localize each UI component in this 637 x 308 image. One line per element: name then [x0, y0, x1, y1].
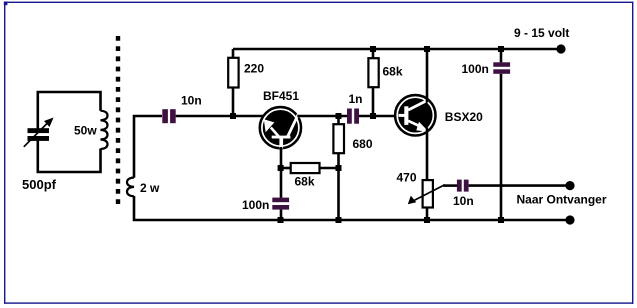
wire tank loop bottom	[38, 141, 101, 172]
wire 100n decoupling vertical bottom	[500, 74, 503, 220]
node junction BSX20 collector/rail	[424, 46, 430, 52]
capacitor 1n	[347, 109, 352, 124]
node junction 680 top	[336, 113, 342, 119]
terminal bottom rail	[565, 215, 574, 224]
potentiometer 470	[423, 180, 433, 207]
svg-text:470: 470	[397, 171, 417, 185]
node junction 680/68k	[336, 165, 342, 171]
resistor 220	[228, 58, 238, 88]
node junction pot/rail	[424, 217, 430, 223]
capacitor 10n input	[162, 109, 168, 123]
wire bottom rail right	[281, 219, 570, 222]
svg-text:1n: 1n	[349, 92, 363, 106]
node junction 68k/rail	[370, 46, 376, 52]
wire BF451 collector to 1n	[297, 115, 347, 118]
border frame	[4, 2, 5, 304]
wire 2w top	[134, 116, 162, 178]
svg-text:BSX20: BSX20	[445, 110, 483, 124]
node junction 68k top resistor	[370, 113, 376, 119]
svg-text:50w: 50w	[74, 124, 97, 138]
node junction emitter/68k	[278, 165, 284, 171]
wire 2w bottom	[134, 196, 280, 220]
wire BF451 emitter down	[280, 147, 283, 198]
node junction 220/base	[230, 113, 236, 119]
wire wiper to 10n out	[443, 184, 458, 187]
transistor BF451	[260, 107, 301, 148]
node junction rail/emitter	[278, 217, 284, 223]
terminal 9-15V	[556, 44, 565, 53]
wire 100n decoupling vertical top	[500, 49, 503, 62]
wire 68k right to 680 line	[320, 167, 339, 170]
coil 2w	[127, 178, 134, 197]
svg-text:500pf: 500pf	[22, 177, 57, 192]
terminal naar ontvanger	[565, 181, 574, 190]
svg-text:2 w: 2 w	[140, 181, 160, 195]
svg-text:Naar Ontvanger: Naar Ontvanger	[517, 192, 607, 206]
svg-text:220: 220	[244, 62, 264, 76]
wire 100n to rail	[280, 210, 283, 220]
wire BSX20 emitter	[426, 128, 429, 181]
wire 10n out to terminal	[469, 184, 570, 187]
capacitor 10n output	[457, 180, 462, 192]
potentiometer wiper arrow	[412, 185, 445, 202]
wire 10n to base	[176, 115, 264, 118]
svg-text:680: 680	[353, 137, 373, 151]
wire 68k left stub	[281, 167, 291, 170]
transformer core	[116, 36, 120, 208]
svg-text:100n: 100n	[462, 62, 489, 76]
wire tank loop top	[38, 92, 101, 129]
capacitor 100n decoupling	[493, 62, 510, 67]
variable capacitor 500pf plates	[28, 128, 50, 133]
node junction 100n/bottom rail	[498, 217, 504, 223]
svg-text:10n: 10n	[453, 194, 474, 208]
wire top rail	[233, 48, 561, 51]
wire 68k top vertical	[372, 49, 375, 116]
capacitor 100n emitter	[272, 198, 289, 203]
svg-text:68k: 68k	[295, 175, 315, 189]
node junction 100n/rail	[498, 46, 504, 52]
wire 220 resistor vertical	[232, 49, 235, 116]
wire BSX20 collector	[426, 49, 429, 103]
svg-text:68k: 68k	[383, 65, 403, 79]
svg-text:10n: 10n	[181, 94, 202, 108]
coil 50w	[101, 111, 108, 149]
transistor BSX20	[395, 95, 435, 135]
svg-text:9 - 15 volt: 9 - 15 volt	[514, 26, 569, 40]
resistor 68k top	[368, 58, 378, 87]
wire 1n to BSX20 base	[359, 115, 399, 118]
resistor 680	[333, 124, 344, 153]
resistor 68k horizontal	[291, 163, 320, 173]
wire pot bottom	[426, 207, 429, 220]
node junction 680/rail	[336, 217, 342, 223]
variable capacitor arrow	[24, 121, 50, 147]
svg-text:BF451: BF451	[263, 89, 299, 103]
wire 680 vertical	[337, 116, 340, 220]
svg-text:100n: 100n	[242, 198, 269, 212]
